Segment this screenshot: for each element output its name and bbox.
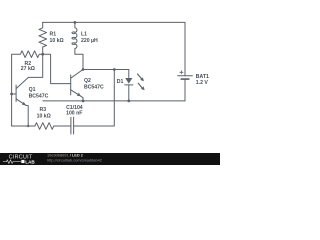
wire top rail [43, 21, 185, 23]
wire L1 to Q2 collector [75, 54, 83, 69]
resistor R3 [35, 123, 71, 130]
node Q1 base [10, 93, 13, 96]
wire W1 collector to D1 [83, 69, 129, 71]
inductor L1 [72, 22, 77, 54]
svg-text:BC547C: BC547C [84, 84, 104, 90]
svg-text:27 kΩ: 27 kΩ [21, 66, 35, 72]
wire Q1 emitter to bottom rail [26, 105, 28, 126]
wire node R1/R2 to Q2 base [43, 54, 71, 83]
svg-text:Q1: Q1 [29, 87, 36, 93]
logo CircuitLab [3, 155, 35, 165]
wire mid rail (emitter/cathode/battery-) [43, 100, 185, 102]
wire node to Q1 collector [28, 54, 42, 77]
node W1/W2 [113, 68, 116, 71]
node L1 top [74, 21, 77, 24]
transistor Q1 [12, 77, 29, 105]
svg-text:1.2 V: 1.2 V [196, 80, 209, 86]
svg-text:10 kΩ: 10 kΩ [37, 114, 51, 120]
svg-text:R1: R1 [50, 32, 57, 38]
resistor R2 [12, 51, 43, 126]
svg-text:LAB: LAB [25, 159, 35, 164]
svg-text:100 nF: 100 nF [66, 111, 82, 117]
svg-text:Q2: Q2 [84, 78, 91, 84]
node Q2 collector [82, 68, 85, 71]
svg-text:D1: D1 [117, 79, 124, 85]
resistor R1 [39, 22, 47, 54]
svg-text:10 kΩ: 10 kΩ [50, 38, 64, 44]
capacitor C1 [71, 117, 74, 134]
battery BAT1 [178, 22, 193, 101]
node D1 cathode [127, 100, 130, 103]
svg-text:L1: L1 [81, 32, 87, 38]
svg-text:220 µH: 220 µH [81, 38, 98, 44]
svg-text:http://circuitlab.com/c/ead6ab: http://circuitlab.com/c/ead6ab42 [47, 157, 102, 162]
wire W2 D1 net to C1 [74, 70, 115, 127]
LED D1 [125, 70, 145, 101]
footer bar [0, 153, 220, 165]
node R3 left [27, 125, 29, 127]
footer text [47, 153, 102, 163]
svg-text:R3: R3 [40, 107, 47, 113]
wire bottom rail [12, 125, 35, 127]
svg-text:BC547C: BC547C [29, 93, 49, 99]
transistor Q2 [71, 70, 83, 101]
node R1/R2 [41, 53, 44, 56]
node Q2 emitter [82, 100, 85, 103]
